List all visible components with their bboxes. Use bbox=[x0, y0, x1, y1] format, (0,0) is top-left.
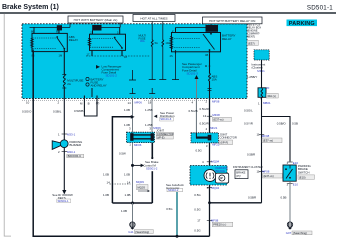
svg-text:BRAKE: BRAKE bbox=[236, 171, 245, 175]
svg-text:1.0B: 1.0B bbox=[103, 193, 109, 197]
svg-text:1.0B: 1.0B bbox=[121, 209, 127, 213]
svg-text:CONNECTOR: CONNECTOR bbox=[157, 132, 174, 136]
battery feed sub box bbox=[254, 50, 269, 60]
bottom pin ticks bbox=[91, 50, 93, 56]
wire 132.5 grey main bbox=[132, 97, 134, 133]
ground G07 bbox=[287, 222, 292, 230]
relay R1 (ABS relay) bbox=[31, 33, 68, 53]
svg-text:0.5G/R: 0.5G/R bbox=[200, 107, 209, 111]
svg-text:(P)!: (P)! bbox=[236, 174, 241, 178]
svg-text:30A: 30A bbox=[140, 39, 145, 43]
label1 stubs bbox=[69, 23, 71, 27]
svg-text:(E37-xx): (E37-xx) bbox=[213, 118, 223, 122]
inner dashed line bbox=[86, 55, 150, 57]
svg-text:0.5B/L: 0.5B/L bbox=[53, 110, 62, 114]
svg-text:(E37): (E37) bbox=[248, 41, 255, 45]
svg-text:BRAKE: BRAKE bbox=[216, 169, 226, 173]
svg-text:10: 10 bbox=[26, 101, 30, 105]
svg-text:18: 18 bbox=[148, 101, 152, 105]
svg-text:17: 17 bbox=[197, 218, 201, 222]
svg-text:MF06: MF06 bbox=[135, 100, 143, 104]
connector ticks on wires bbox=[62, 116, 293, 220]
svg-text:(I/P-F): (I/P-F) bbox=[221, 141, 229, 145]
svg-text:AND RELAY: AND RELAY bbox=[91, 84, 107, 88]
svg-text:SWITCH: SWITCH bbox=[298, 170, 309, 174]
note arrow + See Passenger text (left) bbox=[96, 65, 100, 69]
T terminals upper row bbox=[129, 54, 179, 80]
bus line B relay2 bbox=[176, 27, 212, 29]
svg-text:B/DOOR-U: B/DOOR-U bbox=[68, 154, 81, 158]
wire up-arrow to fuse detail bbox=[195, 75, 199, 79]
svg-text:E10: E10 bbox=[293, 183, 299, 187]
page left border bbox=[3, 14, 5, 237]
wire below relay1b pin bbox=[91, 88, 93, 97]
fuse F1 bbox=[151, 40, 153, 46]
wire 261 down bbox=[261, 97, 263, 203]
svg-text:HOT AT ALL TIMES: HOT AT ALL TIMES bbox=[140, 17, 167, 21]
fuse on wire209 inside box bbox=[209, 54, 211, 74]
wire to ground bbox=[289, 181, 291, 222]
svg-text:BUZZER: BUZZER bbox=[70, 143, 82, 147]
parking buzzer bbox=[52, 132, 84, 190]
svg-text:0.5G: 0.5G bbox=[194, 193, 201, 197]
svg-text:MF08: MF08 bbox=[262, 134, 270, 138]
down arrow end of V2 bbox=[62, 190, 66, 194]
relay1b pin stubs bbox=[92, 31, 94, 35]
svg-text:1.0B: 1.0B bbox=[124, 108, 130, 112]
svg-text:2A: 2A bbox=[67, 82, 71, 86]
coil bbox=[170, 37, 173, 49]
svg-text:SD101-6: SD101-6 bbox=[160, 117, 171, 121]
svg-text:0.5BR: 0.5BR bbox=[247, 153, 255, 157]
contact arm bbox=[57, 38, 64, 48]
contact arm bbox=[203, 34, 215, 50]
fusible link black bar 3 bbox=[206, 25, 219, 32]
relay1 top pin stubs bbox=[33, 27, 35, 33]
svg-text:SD110-2: SD110-2 bbox=[168, 188, 179, 192]
svg-text:B: B bbox=[88, 101, 90, 105]
junction to right column bbox=[210, 202, 262, 204]
relay R2 (battery relay) bbox=[170, 33, 221, 54]
svg-text:11: 11 bbox=[257, 170, 260, 174]
svg-text:CONNECTOR: CONNECTOR bbox=[220, 136, 237, 140]
svg-text:(E37-xx): (E37-xx) bbox=[263, 139, 273, 143]
svg-text:MF21: MF21 bbox=[210, 126, 218, 130]
svg-text:MQ04: MQ04 bbox=[211, 186, 219, 190]
svg-text:RELAY: RELAY bbox=[69, 38, 78, 42]
svg-text:0.5G/R: 0.5G/R bbox=[200, 121, 209, 125]
connector pin row dotted line bbox=[22, 100, 131, 102]
fusible link (black bar) over relay1 pin bbox=[57, 25, 62, 30]
svg-text:MB01: MB01 bbox=[263, 101, 271, 105]
wire 209 main bbox=[209, 98, 211, 237]
svg-text:0.5G: 0.5G bbox=[194, 228, 201, 232]
svg-text:1.0B: 1.0B bbox=[125, 193, 131, 197]
svg-text:SD901-1: SD901-1 bbox=[58, 199, 69, 203]
instrument cluster bbox=[190, 166, 229, 186]
svg-text:0.5W: 0.5W bbox=[119, 151, 126, 155]
svg-text:0.5G: 0.5G bbox=[194, 207, 201, 211]
svg-text:1.0B: 1.0B bbox=[124, 173, 130, 177]
wire (teal, from SD110-2) bbox=[176, 192, 178, 236]
PARKING tag bbox=[287, 20, 318, 27]
svg-text:1M: 1M bbox=[59, 54, 63, 58]
svg-text:0.5Y/R: 0.5Y/R bbox=[244, 121, 253, 125]
svg-text:G07: G07 bbox=[286, 231, 292, 235]
svg-text:MQ03: MQ03 bbox=[138, 186, 146, 190]
svg-text:PARKING: PARKING bbox=[289, 21, 315, 27]
svg-text:0.5G/B: 0.5G/B bbox=[189, 109, 198, 113]
svg-text:14: 14 bbox=[127, 180, 131, 184]
joint connector bar1 bbox=[127, 132, 155, 142]
wire 261 top bbox=[261, 60, 263, 88]
branch to parking switch bbox=[262, 117, 291, 162]
svg-text:MENT): MENT) bbox=[247, 35, 255, 38]
label HOT WITH BATTERY (Main 2x) bbox=[68, 16, 123, 23]
title rule bbox=[0, 12, 336, 14]
svg-text:2F: 2F bbox=[266, 86, 270, 90]
label HOT WITH BATTERY RELAY ON bbox=[203, 17, 263, 24]
svg-text:0.5G: 0.5G bbox=[196, 149, 203, 153]
pin ticks bbox=[63, 50, 65, 54]
note See Power Distribution bbox=[154, 115, 157, 118]
svg-text:SD101-3: SD101-3 bbox=[187, 72, 199, 76]
wire V1 + bottom run bbox=[33, 52, 209, 237]
svg-text:0.5BR: 0.5BR bbox=[248, 196, 256, 200]
svg-text:MF08: MF08 bbox=[212, 99, 220, 103]
svg-text:0.5G/O: 0.5G/O bbox=[22, 110, 32, 114]
svg-text:MQ09: MQ09 bbox=[136, 180, 144, 184]
thick wire to bottom junction bbox=[151, 171, 153, 203]
svg-text:SD101-2: SD101-2 bbox=[106, 74, 118, 78]
bottom junction bbox=[112, 202, 152, 204]
svg-text:(Searching): (Searching) bbox=[293, 231, 307, 235]
bus line A under label1 bbox=[30, 26, 71, 28]
fuse box F30 bbox=[258, 88, 266, 98]
svg-text:30A (x): 30A (x) bbox=[267, 94, 276, 98]
svg-text:SD501-2: SD501-2 bbox=[146, 167, 158, 171]
svg-text:1.25B/Y: 1.25B/Y bbox=[247, 75, 257, 79]
U jumper bbox=[84, 96, 97, 117]
svg-text:MF21: MF21 bbox=[212, 142, 220, 146]
svg-text:4B: 4B bbox=[205, 53, 208, 57]
pin ticks bbox=[175, 50, 177, 54]
engine room relay box (cyan dashed region) bbox=[22, 24, 247, 99]
svg-text:0.5B: 0.5B bbox=[281, 196, 287, 200]
svg-text:HOT WITH BATTERY (Main 2x): HOT WITH BATTERY (Main 2x) bbox=[74, 18, 118, 22]
svg-text:10A: 10A bbox=[212, 78, 217, 82]
ground G11 bbox=[130, 222, 135, 230]
joint connector bar2 bbox=[191, 133, 218, 143]
svg-text:(E37-xx): (E37-xx) bbox=[264, 174, 274, 178]
svg-text:PRE20 (x ): PRE20 (x ) bbox=[213, 223, 226, 227]
svg-text:0.5G: 0.5G bbox=[166, 207, 173, 211]
T terminals lower row bbox=[130, 88, 156, 94]
svg-text:Brake System (1): Brake System (1) bbox=[2, 4, 59, 11]
fuse tails bbox=[151, 46, 153, 79]
svg-text:(E10): (E10) bbox=[299, 175, 306, 179]
svg-text:14: 14 bbox=[107, 180, 111, 184]
coil bbox=[88, 38, 91, 46]
svg-text:SD501-1: SD501-1 bbox=[307, 5, 333, 12]
label HOT AT ALL TIMES bbox=[133, 15, 175, 22]
svg-text:INSTRUMENT CLUSTER: INSTRUMENT CLUSTER bbox=[233, 165, 263, 169]
fuse on V2 bbox=[63, 74, 65, 87]
battery relay icons + text bbox=[86, 77, 89, 80]
fusible link black bar 2 over relay1b pin bbox=[92, 25, 101, 31]
svg-text:MF08: MF08 bbox=[212, 113, 220, 117]
inline connector MQ09 bbox=[110, 183, 131, 185]
junction dot + arrow branch to note bbox=[131, 164, 134, 167]
junction arrow + left branch bbox=[131, 115, 135, 119]
svg-text:14: 14 bbox=[128, 101, 132, 105]
coil bbox=[31, 39, 34, 48]
fuse F2 bbox=[162, 40, 164, 46]
svg-text:RELAY: RELAY bbox=[222, 37, 232, 41]
svg-text:M33-1: M33-1 bbox=[67, 132, 76, 136]
svg-text:M33-1: M33-1 bbox=[67, 150, 76, 154]
fuse wires from label2 bbox=[151, 22, 153, 41]
svg-text:0.5B/O: 0.5B/O bbox=[277, 122, 287, 126]
wire 196.4 lower part bbox=[195, 98, 197, 133]
wire 152 stub with dot end bbox=[151, 143, 153, 158]
svg-text:0.5B: 0.5B bbox=[292, 122, 298, 126]
svg-text:MQ04: MQ04 bbox=[211, 160, 219, 164]
svg-text:(Searching): (Searching) bbox=[135, 230, 149, 234]
svg-text:MF06: MF06 bbox=[134, 143, 142, 147]
svg-text:13: 13 bbox=[203, 114, 207, 118]
wire V2 (buzzer feed) bbox=[63, 54, 65, 75]
contact arm bbox=[115, 38, 122, 48]
svg-text:(I/P-E): (I/P-E) bbox=[157, 136, 165, 140]
svg-text:5A: 5A bbox=[155, 41, 158, 45]
svg-text:0.5W/B: 0.5W/B bbox=[74, 109, 84, 113]
svg-text:0.5G/L: 0.5G/L bbox=[244, 109, 253, 113]
wire 152 (bar1 right pin) bbox=[151, 97, 153, 133]
svg-text:MF08: MF08 bbox=[262, 169, 270, 173]
svg-text:1.0B: 1.0B bbox=[103, 173, 109, 177]
relay R1b (second relay) bbox=[88, 34, 125, 56]
svg-text:G11: G11 bbox=[128, 230, 134, 234]
svg-text:4S: 4S bbox=[170, 54, 173, 58]
svg-text:1.25B: 1.25B bbox=[145, 108, 153, 112]
svg-text:MF08: MF08 bbox=[211, 218, 219, 222]
svg-text:11: 11 bbox=[257, 132, 260, 136]
svg-text:(2): (2) bbox=[96, 101, 100, 105]
